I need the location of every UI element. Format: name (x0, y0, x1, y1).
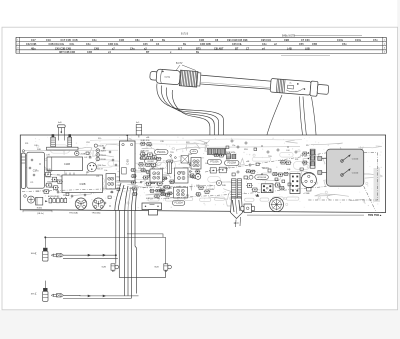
IF transformer TR100A left (75, 198, 87, 210)
svg-text:C4B: C4B (87, 51, 92, 54)
IC U3 6-pin (261, 184, 273, 193)
line to TRN label (247, 214, 364, 216)
svg-text:C3B C31 C3x: C3B C31 C3x (49, 43, 65, 46)
svg-text:C17 C1B: C17 C1B (61, 39, 71, 42)
trimmer pot T101 (301, 172, 316, 191)
pin header CN4 (290, 174, 300, 194)
antenna right sleeve L102 (270, 78, 311, 95)
oval label PC100A (172, 200, 184, 205)
table row 3 entries (31, 47, 310, 50)
oval label AT100A (255, 175, 268, 179)
svg-text:C55: C55 (299, 43, 304, 46)
svg-text:PT100A: PT100A (210, 161, 219, 164)
svg-text:L8B: L8B (305, 47, 310, 50)
crystal X1 (167, 162, 171, 174)
mount bar (47, 147, 79, 150)
svg-text:B4Bu NOTE: B4Bu NOTE (282, 34, 296, 37)
svg-text:9UB5 R7B: 9UB5 R7B (141, 140, 151, 142)
antenna lead connector CN1 (207, 148, 225, 154)
antenna coil winding hatch (179, 70, 198, 87)
wire plug1 sleeve (63, 258, 118, 260)
parts left of block (302, 152, 308, 164)
relay box RL1 (181, 156, 189, 164)
svg-text:JU5: JU5 (138, 168, 141, 170)
svg-text:AT100TA: AT100TA (257, 176, 266, 179)
svg-text:C4x: C4x (130, 47, 135, 50)
filter F1 (209, 168, 218, 173)
trimmers W7B (226, 152, 236, 159)
light band right (374, 168, 381, 202)
svg-text:5UB: 5UB (102, 267, 107, 269)
svg-text:TR100Ax: TR100Ax (92, 211, 102, 214)
svg-text:R9U1: R9U1 (101, 155, 107, 157)
svg-text:C21: C21 (30, 182, 33, 184)
svg-text:JU2: JU2 (84, 157, 87, 159)
wire rail second (127, 234, 163, 238)
svg-text:C91 C93 C95 C98: C91 C93 C95 C98 (227, 39, 248, 42)
wire rail lower (63, 295, 139, 298)
svg-text:C10x: C10x (337, 39, 344, 42)
svg-text:C9x: C9x (232, 145, 235, 147)
svg-text:C8L4BT: C8L4BT (214, 47, 224, 50)
svg-text:C44: C44 (286, 150, 289, 152)
svg-text:PS100A: PS100A (157, 151, 166, 154)
bottom row tiny parts (45, 195, 66, 203)
svg-text:C21: C21 (96, 176, 99, 178)
table row index digits (17, 39, 386, 53)
component K1 above board (57, 122, 65, 140)
svg-text:TRN 7501▲: TRN 7501▲ (368, 214, 382, 217)
sub jack SUB2 (154, 264, 171, 272)
svg-text:C14B: C14B (64, 163, 70, 166)
antenna bar assembly L101 (149, 68, 329, 98)
svg-text:R11: R11 (86, 172, 89, 174)
antenna left end cap (150, 71, 159, 80)
trimmer C101b lower (341, 169, 359, 177)
svg-text:R10B: R10B (101, 159, 107, 161)
left cluster parts (43, 172, 63, 193)
svg-text:C45: C45 (143, 43, 148, 46)
mount post P2 hatched (68, 137, 72, 148)
svg-text:C4B: C4B (94, 47, 99, 50)
oval label R1UB7 (145, 159, 158, 163)
svg-text:BT: BT (235, 47, 239, 50)
svg-text:A7UB A7UBT: A7UB A7UBT (48, 195, 60, 198)
parts above T9U01 (272, 172, 289, 176)
svg-text:R4B2: R4B2 (37, 208, 43, 210)
case dash diagonal upper (22, 186, 215, 192)
svg-text:C7x: C7x (373, 39, 378, 42)
svg-text:x5: x5 (289, 82, 291, 84)
resistor stack R9 (96, 149, 107, 161)
svg-text:B (7) B: B (7) B (181, 33, 189, 35)
svg-text:C1B: C1B (119, 39, 124, 42)
capacitor C1 tall electrolytic (21, 150, 25, 189)
outer margin shade (0, 310, 400, 339)
svg-text:T1: T1 (187, 163, 189, 165)
svg-text:C1B: C1B (199, 39, 204, 42)
U3 side parts (246, 175, 285, 191)
svg-text:R9x: R9x (57, 175, 60, 177)
connector CN2 with ears (241, 204, 255, 213)
U1 pin labels (117, 176, 121, 186)
svg-text:BT: BT (146, 51, 150, 54)
parts right of C-5B top (140, 140, 154, 157)
edge connector TP1 (142, 203, 162, 215)
svg-text:C7 C33: C7 C33 (301, 39, 310, 42)
svg-text:C5B: C5B (312, 43, 317, 46)
svg-text:JU6: JU6 (34, 145, 37, 147)
capacitor C22 circle (216, 180, 221, 185)
dimension line under board left (23, 210, 52, 213)
pot VR1 (24, 195, 35, 203)
svg-text:4BT C3B C4B: 4BT C3B C4B (59, 51, 75, 54)
svg-text:C9x: C9x (189, 171, 192, 173)
note line right (294, 34, 362, 36)
svg-text:C4x: C4x (86, 43, 91, 46)
plug PL2 (51, 294, 63, 297)
svg-text:PD100A: PD100A (228, 162, 237, 165)
svg-text:R17: R17 (306, 145, 309, 147)
left cluster labels (45, 171, 54, 189)
table row 1 entries (31, 39, 378, 42)
svg-text:R7x: R7x (98, 138, 101, 140)
svg-text:R31: R31 (295, 159, 298, 161)
post pins (52, 134, 71, 137)
antenna coil sleeve L101a (156, 69, 181, 85)
svg-text:JU6: JU6 (287, 169, 290, 171)
switch jack SW-0 (31, 248, 48, 261)
capacitor C10B (187, 174, 200, 180)
extra scatter right-middle (226, 140, 303, 187)
svg-text:C101b: C101b (352, 172, 359, 174)
ferrite rod (200, 75, 272, 90)
svg-text:C45 C4L: C45 C4L (232, 43, 242, 46)
oval label PT100A (207, 159, 221, 164)
svg-text:PC100A: PC100A (174, 202, 183, 205)
parts right of C10B (195, 186, 210, 196)
svg-text:C17: C17 (31, 39, 36, 42)
svg-text:C-5B: C-5B (127, 159, 130, 165)
washer screw W1 (270, 198, 284, 212)
svg-text:T04 Dsu: T04 Dsu (97, 165, 106, 167)
oval label PD100A (225, 160, 240, 165)
svg-text:C4x: C4x (262, 43, 267, 46)
svg-text:B.T: B.T (178, 47, 183, 50)
svg-text:JU1: JU1 (204, 143, 207, 145)
svg-text:C18: C18 (86, 142, 89, 144)
middle component lattice (138, 155, 200, 198)
PCB board outline (20, 135, 385, 213)
antenna coil end ring (197, 73, 201, 86)
variable capacitor C-5B (120, 135, 136, 182)
svg-text:C3L: C3L (70, 43, 75, 46)
scattered part labels (25, 137, 309, 200)
svg-text:C10x: C10x (355, 39, 362, 42)
terminal strip CN3 (308, 149, 315, 168)
sub jack SUB1 (102, 264, 119, 272)
right small parts pair (280, 161, 292, 165)
svg-text:R11: R11 (186, 195, 189, 197)
mount post P1 hatched (51, 137, 56, 148)
antenna tip knob (317, 84, 329, 94)
parts left of PT oval (213, 154, 224, 157)
svg-text:5UB: 5UB (154, 267, 159, 269)
bottom labels left (37, 211, 102, 214)
resistor R4B bottom left (36, 197, 43, 209)
IF block IC5 (175, 168, 189, 183)
svg-text:C4x: C4x (104, 170, 107, 172)
svg-text:4UBT: 4UBT (101, 151, 107, 153)
svg-text:R23: R23 (186, 142, 189, 144)
jack J2 leads (236, 217, 241, 227)
svg-text:+C10B: +C10B (303, 193, 310, 195)
svg-text:C45 C3B C4B: C45 C3B C4B (55, 47, 71, 50)
faint line below table right (281, 54, 330, 56)
svg-text:C101b: C101b (352, 158, 359, 160)
block lead lower (318, 171, 327, 175)
filter F2 (218, 167, 228, 173)
svg-text:W7B W7B: W7B W7B (226, 152, 235, 154)
tuning block assembly shaded (327, 149, 364, 186)
svg-text:x10x: x10x (192, 151, 196, 153)
wire bundle below board (116, 211, 166, 299)
svg-text:(5B 4x): (5B 4x) (37, 213, 44, 215)
trimmer C101b upper (341, 155, 359, 163)
antenna right coil lead wires (264, 95, 317, 149)
block lead upper (318, 157, 327, 161)
case dash diagonal top right (205, 153, 327, 172)
case dash diagonal lower (150, 187, 327, 200)
svg-text:B4I 4T: B4I 4T (97, 168, 103, 170)
svg-text:C4B C4L: C4B C4L (108, 43, 119, 46)
wire bundle through board (115, 183, 137, 211)
svg-text:JU4B: JU4B (80, 153, 86, 155)
svg-text:C5x: C5x (246, 179, 249, 181)
svg-text:R31: R31 (25, 143, 28, 145)
left subcolumn parts (130, 169, 138, 196)
box C32B (62, 173, 103, 193)
svg-text:C1B: C1B (73, 39, 78, 42)
oval label PS100A (155, 150, 169, 155)
svg-text:TR100Ax: TR100Ax (69, 211, 79, 214)
IF block IC4 (150, 169, 163, 182)
svg-text:C4x: C4x (92, 39, 97, 42)
IF block IC6 (174, 187, 188, 198)
antenna left coil lead wires (157, 84, 224, 150)
marks above resistor stack (94, 144, 104, 148)
svg-text:C4B C8B: C4B C8B (200, 43, 211, 46)
table row 4 entries (59, 51, 200, 54)
oval label x10x (190, 150, 198, 154)
svg-text:L4B: L4B (287, 47, 292, 50)
jumper JU4B (75, 151, 86, 155)
jack SW-1 stub (44, 281, 46, 288)
svg-text:C44: C44 (140, 151, 143, 153)
svg-text:T84B4x: T84B4x (45, 176, 52, 178)
antenna label BA-1 (176, 63, 196, 70)
transistor T04 (87, 163, 106, 172)
box C1RB (27, 152, 45, 188)
svg-text:C19: C19 (46, 39, 51, 42)
svg-text:1R-0: 1R-0 (234, 223, 240, 225)
wire rail top (45, 237, 166, 264)
svg-text:4Bx: 4Bx (31, 47, 36, 50)
triangle mark (256, 194, 259, 197)
switch jack SW-1 (31, 288, 48, 301)
middle tiny labels (138, 154, 183, 190)
IC U1 4-pin (106, 174, 116, 189)
svg-text:R1UB7: R1UB7 (148, 161, 155, 163)
IC U2 4-pin (191, 158, 201, 170)
svg-text:JU8: JU8 (36, 191, 39, 193)
box C14B (47, 157, 83, 171)
svg-text:C9B: C9B (284, 39, 289, 42)
parts table frame (16, 37, 386, 53)
headphone jack J2 tall (231, 179, 243, 219)
wire plug1 tip (63, 254, 116, 256)
svg-text:C1Rx: C1Rx (33, 171, 40, 173)
svg-text:B.4TV: B.4TV (176, 63, 183, 65)
svg-text:C5x: C5x (342, 43, 347, 46)
svg-text:C8x: C8x (135, 39, 140, 42)
svg-text:C22 C3B: C22 C3B (26, 43, 36, 46)
extra scatter left (29, 147, 120, 207)
antenna right end cap (310, 81, 318, 96)
oval label x4B (167, 160, 173, 163)
svg-text:C10B: C10B (187, 177, 193, 179)
case dash outline right (307, 153, 378, 211)
table row 2 entries (26, 43, 347, 46)
svg-text:C32B: C32B (80, 183, 86, 186)
IF transformer TR100A right (93, 198, 105, 210)
plug PL1 (51, 254, 63, 257)
parts left of oval (245, 170, 256, 174)
svg-text:BT5: BT5 (196, 47, 201, 50)
trimmer handle above C-5B (136, 122, 142, 138)
svg-text:C95 C91: C95 C91 (261, 39, 271, 42)
